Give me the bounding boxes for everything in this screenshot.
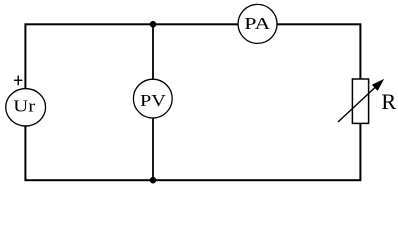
svg-text:PA: PA <box>244 15 271 33</box>
svg-text:Ur: Ur <box>13 97 36 116</box>
svg-text:PV: PV <box>140 92 166 111</box>
svg-text:R: R <box>381 89 396 114</box>
